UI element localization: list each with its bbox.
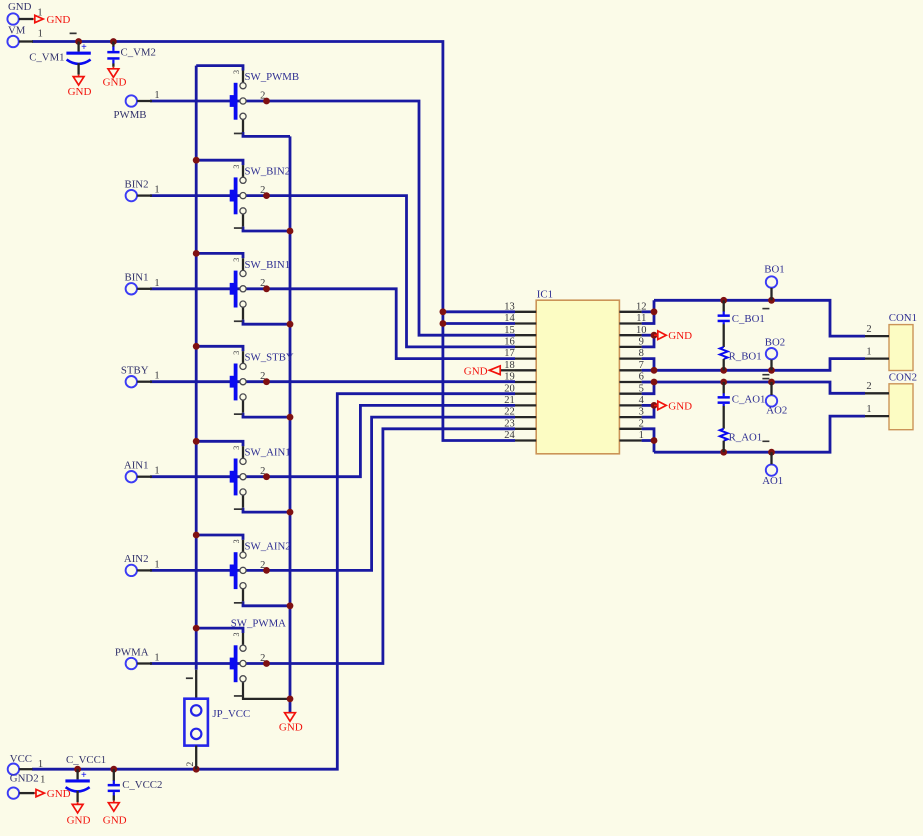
- svg-text:2: 2: [186, 762, 196, 767]
- svg-text:GND: GND: [103, 814, 127, 826]
- svg-text:C_AO1: C_AO1: [732, 394, 766, 406]
- svg-text:SW_AIN2: SW_AIN2: [245, 540, 291, 552]
- svg-text:17: 17: [504, 348, 515, 359]
- svg-text:13: 13: [504, 301, 515, 312]
- svg-text:1: 1: [154, 653, 159, 664]
- svg-text:GND: GND: [67, 814, 91, 826]
- svg-text:8: 8: [639, 348, 644, 359]
- svg-text:C_VM1: C_VM1: [29, 52, 64, 64]
- svg-text:22: 22: [504, 407, 515, 418]
- svg-text:3: 3: [232, 633, 241, 637]
- svg-text:PWMA: PWMA: [115, 646, 149, 658]
- svg-text:SW_BIN1: SW_BIN1: [245, 259, 291, 271]
- svg-text:GND: GND: [668, 330, 692, 342]
- svg-text:3: 3: [232, 351, 241, 355]
- svg-text:1: 1: [154, 371, 159, 382]
- svg-text:3: 3: [232, 539, 241, 543]
- svg-text:21: 21: [504, 395, 515, 406]
- svg-text:GND: GND: [47, 788, 71, 800]
- svg-text:CON2: CON2: [889, 371, 917, 383]
- svg-text:+: +: [81, 42, 87, 53]
- svg-text:C_VM2: C_VM2: [121, 46, 156, 58]
- svg-text:2: 2: [866, 381, 871, 392]
- svg-text:1: 1: [37, 7, 42, 18]
- svg-text:12: 12: [636, 301, 647, 312]
- svg-text:GND: GND: [464, 366, 488, 378]
- svg-text:1: 1: [154, 278, 159, 289]
- svg-text:1: 1: [154, 90, 159, 101]
- svg-text:GND: GND: [8, 1, 32, 13]
- svg-text:GND: GND: [668, 400, 692, 412]
- svg-text:GND: GND: [68, 86, 92, 98]
- svg-text:1: 1: [639, 430, 644, 441]
- svg-text:1: 1: [40, 774, 45, 785]
- svg-text:1: 1: [866, 346, 871, 357]
- svg-text:IC1: IC1: [537, 288, 553, 300]
- svg-text:1: 1: [38, 29, 43, 40]
- svg-text:1: 1: [154, 185, 159, 196]
- svg-text:1: 1: [154, 559, 159, 570]
- svg-text:1: 1: [154, 466, 159, 477]
- svg-text:BIN1: BIN1: [125, 272, 149, 284]
- svg-text:SW_PWMB: SW_PWMB: [245, 71, 300, 83]
- svg-text:CON1: CON1: [889, 312, 917, 324]
- svg-text:GND: GND: [279, 721, 303, 733]
- svg-text:4: 4: [639, 395, 645, 406]
- svg-text:15: 15: [504, 325, 515, 336]
- svg-text:C_VCC2: C_VCC2: [122, 779, 162, 791]
- svg-text:2: 2: [639, 418, 644, 429]
- svg-text:C_BO1: C_BO1: [732, 313, 765, 325]
- svg-text:5: 5: [639, 383, 644, 394]
- svg-text:11: 11: [636, 313, 646, 324]
- svg-text:3: 3: [232, 258, 241, 262]
- svg-text:VM: VM: [8, 25, 26, 37]
- svg-text:19: 19: [504, 372, 515, 383]
- svg-text:SW_BIN2: SW_BIN2: [245, 166, 291, 178]
- svg-text:C_VCC1: C_VCC1: [66, 754, 106, 766]
- svg-text:24: 24: [504, 430, 515, 441]
- svg-text:14: 14: [504, 313, 515, 324]
- svg-text:SW_AIN1: SW_AIN1: [245, 447, 291, 459]
- svg-text:SW_PWMA: SW_PWMA: [231, 617, 286, 629]
- svg-text:20: 20: [504, 383, 515, 394]
- svg-text:3: 3: [232, 165, 241, 169]
- svg-text:2: 2: [866, 324, 871, 335]
- svg-text:GND2: GND2: [10, 773, 39, 785]
- svg-text:9: 9: [639, 337, 644, 348]
- svg-text:7: 7: [639, 360, 644, 371]
- svg-text:R_BO1: R_BO1: [729, 351, 762, 363]
- svg-text:STBY: STBY: [121, 365, 149, 377]
- svg-text:16: 16: [504, 337, 515, 348]
- svg-text:3: 3: [232, 70, 241, 74]
- svg-text:1: 1: [866, 404, 871, 415]
- svg-text:PWMB: PWMB: [114, 109, 147, 121]
- svg-text:3: 3: [639, 407, 644, 418]
- svg-text:BO2: BO2: [765, 336, 785, 348]
- svg-text:SW_STBY: SW_STBY: [245, 352, 294, 364]
- svg-text:6: 6: [639, 372, 644, 383]
- svg-text:AIN1: AIN1: [124, 460, 149, 472]
- svg-text:3: 3: [232, 446, 241, 450]
- svg-text:VCC: VCC: [10, 753, 32, 765]
- svg-text:JP_VCC: JP_VCC: [212, 708, 250, 720]
- svg-text:AIN2: AIN2: [124, 553, 149, 565]
- svg-text:AO2: AO2: [766, 404, 787, 416]
- svg-text:GND: GND: [47, 14, 71, 26]
- svg-text:+: +: [81, 770, 87, 781]
- svg-text:GND: GND: [103, 77, 127, 89]
- svg-text:R_AO1: R_AO1: [729, 431, 763, 443]
- svg-text:BIN2: BIN2: [125, 178, 149, 190]
- svg-text:AO1: AO1: [762, 475, 783, 487]
- svg-text:1: 1: [38, 759, 43, 770]
- svg-text:10: 10: [636, 325, 647, 336]
- svg-text:BO1: BO1: [764, 263, 784, 275]
- svg-text:23: 23: [504, 418, 515, 429]
